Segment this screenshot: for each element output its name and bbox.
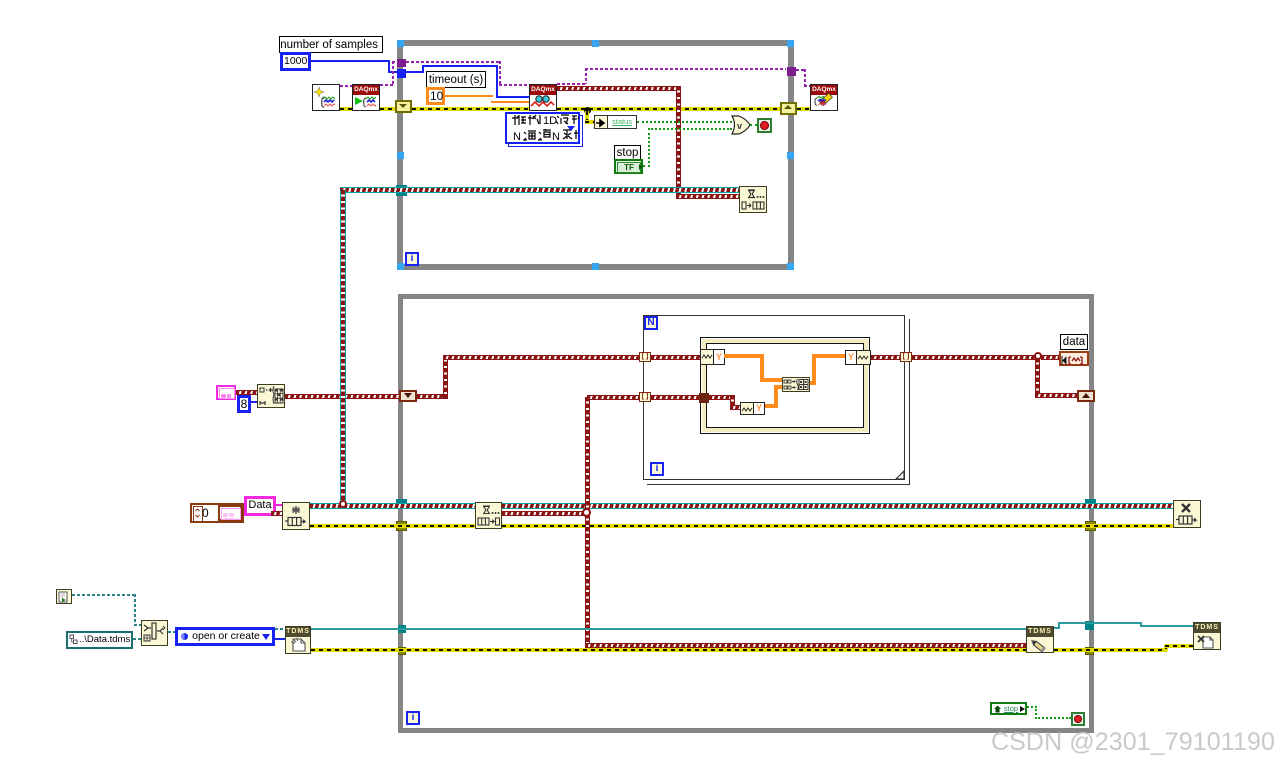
enum constant "open or create" <box>175 627 275 646</box>
wire: path current VI -> build path (teal dashed) <box>72 594 136 596</box>
selection handle bottom-right <box>787 263 794 270</box>
local variable stop <box>990 702 1027 715</box>
wire: tdms refnum open->write (teal) <box>311 628 1026 630</box>
IPE left border tunnel (solid square) <box>699 393 709 403</box>
auto-index tunnel T3 (right) <box>900 352 912 362</box>
wire: 8 -> init array (blue) <box>251 401 257 403</box>
while loop 2 (consumer) border <box>398 294 1094 733</box>
通 <box>523 131 536 140</box>
tunnel olive error (left) <box>396 521 407 531</box>
wire: error dequeue->release <box>502 524 1173 528</box>
道 <box>538 129 551 140</box>
tunnel olive error (right) <box>1085 521 1096 531</box>
wire: error write->close <box>1054 648 1167 652</box>
Obtain Queue VI <box>282 502 310 530</box>
svg-text:1D: 1D <box>543 115 557 127</box>
wire: i32 number of samples (blue) <box>310 60 390 62</box>
wire: timeout DBL (orange) <box>445 95 493 97</box>
tunnel blue (number of samples) <box>397 69 406 78</box>
模 <box>512 115 526 125</box>
path constant ..\Data.tdms <box>66 631 133 649</box>
tunnel teal (queue refnum into loop) <box>396 185 407 196</box>
iteration terminal i (loop2) <box>406 711 420 725</box>
selection handle top-left <box>397 40 404 47</box>
polymorphic selector label (Analog 1D Wfm NChan NSamp, Chinese) <box>508 115 583 147</box>
tunnel teal tdms (left) <box>398 625 406 633</box>
wire: queue refnum vertical branch up to top loop <box>340 190 346 502</box>
selection handle top-mid <box>592 40 599 47</box>
wire: bundled waveform -> T3 <box>871 355 900 360</box>
selection handle bottom-mid <box>592 263 599 270</box>
Interleave 1D Arrays function <box>782 377 810 392</box>
numeric constant 10 <box>426 87 445 105</box>
get waveform Y node (inner) <box>740 402 754 415</box>
wire: task refnum tunnel->Clear (purple) <box>796 69 806 71</box>
wire: element vertical x587 (maroon) <box>585 397 590 647</box>
wire: element down -> TDMS write (maroon) <box>585 643 1026 648</box>
shift register left (waveform array) brown <box>399 390 417 402</box>
TDMS Close VI <box>1193 622 1221 650</box>
DAQmx Create Virtual Channel VI <box>312 84 340 111</box>
IPE border node: bundle waveform (right) <box>845 350 857 365</box>
selection handle bottom-left <box>397 263 404 270</box>
wire: task refnum create->start (purple) <box>340 85 352 87</box>
label "stop" <box>614 145 641 160</box>
selection handle right-mid <box>787 152 794 159</box>
wire: wfm into T1 from init array (maroon striped) <box>285 394 399 399</box>
count terminal N <box>644 316 658 330</box>
wire: error cluster create->start (yellow/black) <box>340 107 352 111</box>
wire: boolean status -> OR (green dotted) <box>637 121 732 123</box>
boolean control terminal stop (TF) <box>614 159 643 174</box>
string constant "Data" <box>244 496 276 516</box>
conditional terminal (loop1) <box>757 118 772 133</box>
label "data" <box>1060 334 1088 350</box>
for loop dog-ear corner <box>893 468 911 486</box>
watermark <box>991 728 1277 758</box>
TDMS Open VI <box>285 626 311 654</box>
wire: string Data -> obtain queue (pink) <box>276 504 282 506</box>
error junction dot <box>584 107 591 114</box>
wire: boolean stop -> OR <box>643 165 650 167</box>
numeric constant 8 <box>237 395 251 413</box>
iteration terminal i (loop1) <box>405 252 419 266</box>
wire: T2 -> IPE tunnel -> get wfm node <box>651 395 699 400</box>
array of waveform constant <box>190 503 244 523</box>
tunnel purple (task in) <box>397 59 406 67</box>
wire: error Read->right SR <box>557 107 780 111</box>
wire: OR output -> conditional terminal <box>750 124 757 126</box>
wire: element type -> obtain queue (maroon) <box>271 511 282 516</box>
wire: waveform array Read->down (maroon striped) <box>557 86 681 91</box>
tunnel teal tdms (right) <box>1085 621 1094 630</box>
for loop frame main <box>643 315 905 480</box>
wire: task refnum start->loop (purple) <box>380 84 393 86</box>
wire: orange interleave out -> bundle Y <box>810 381 816 385</box>
tunnel olive error tdms (right) <box>1085 647 1094 655</box>
for loop frame (stacked) outer offset lines <box>647 319 910 485</box>
DAQmx Clear Task VI <box>810 84 838 111</box>
indicator terminal data (waveform array) <box>1059 351 1089 366</box>
wire: built path -> tdms open (teal dashed, behind enum) <box>168 631 175 633</box>
wire: error obtain->dequeue <box>310 524 475 528</box>
wire: path const -> build path <box>133 638 141 640</box>
shift register right (error) olive <box>780 102 797 115</box>
iteration terminal i (for loop) <box>650 462 664 476</box>
tunnel teal queue (left) <box>396 499 407 509</box>
shift register right (waveform array) brown <box>1077 390 1095 402</box>
svg-text:N: N <box>513 131 521 143</box>
wire: error SR->Read <box>412 107 529 111</box>
Release Queue VI <box>1173 500 1201 528</box>
selection handle top-right <box>787 40 794 47</box>
junction dot dequeue element <box>582 508 591 517</box>
shift register left (error) olive <box>395 100 412 113</box>
junction dot on waveform wire <box>1034 352 1042 360</box>
wire: error right SR->Clear <box>797 107 810 111</box>
TDMS Write VI <box>1026 626 1054 653</box>
wire: T3 -> data indicator / junction <box>912 355 1036 360</box>
svg-text:N: N <box>552 131 560 143</box>
in-place element structure border <box>700 337 870 434</box>
unbundle by name "status" <box>594 115 608 129</box>
wire: junction -> T2 <box>587 395 639 400</box>
Initialize Array function <box>257 384 285 408</box>
拟 <box>528 115 540 125</box>
tunnel purple (task out) right <box>787 67 796 76</box>
wire: error open->write (yellow) <box>311 648 1026 652</box>
wire: error branch to unbundle <box>585 111 589 122</box>
svg-text:v: v <box>737 121 742 131</box>
numeric control 1000 <box>280 52 311 71</box>
wire: orange Y array (unbundle -> interleave in1) <box>724 354 764 358</box>
auto-index tunnel T2 (left lower) <box>639 392 651 402</box>
wire: queue refnum into top loop (teal/maroon) <box>340 187 739 193</box>
conditional terminal (loop2) <box>1071 712 1085 726</box>
selection handle left-mid <box>397 152 404 159</box>
wire: wfm constant -> init array (maroon dashed) <box>236 390 257 395</box>
wire: queue refnum dequeue->release <box>502 503 1173 509</box>
wire: queue refnum obtain->dequeue (teal/maroon band) <box>310 503 475 509</box>
label "number of samples" <box>279 36 383 53</box>
wire: junction down to right shift register <box>1035 358 1040 398</box>
wire: error start->shift register <box>380 107 395 111</box>
while loop 1 (producer) border <box>397 40 794 270</box>
样 <box>574 130 587 139</box>
blue down arrow of selector <box>567 126 575 131</box>
波 <box>556 115 569 124</box>
wire: enum -> tdms open (blue) <box>275 638 285 640</box>
wire: orange Y array (get wfm -> interleave in2) <box>765 404 777 408</box>
wire: task refnum Read->tunnel (purple) <box>557 83 587 85</box>
auto-index tunnel T1 (left upper) <box>639 352 651 362</box>
label "timeout (s)" <box>426 71 486 88</box>
Dequeue Element VI <box>475 502 502 529</box>
queue wire junction dot <box>339 500 347 508</box>
OR gate <box>729 114 755 136</box>
DAQmx Read VI <box>529 84 557 111</box>
IPE border node: unbundle waveform (left) <box>700 349 714 365</box>
wire: local var -> conditional terminal (green dotted) <box>1027 706 1037 708</box>
waveform constant (pink) for init array <box>216 385 236 400</box>
形 <box>572 115 584 124</box>
wire: T1 -> unbundle node <box>651 355 700 360</box>
采 <box>563 130 572 139</box>
DAQmx Start Task VI <box>352 84 380 111</box>
tunnel olive error tdms (left) <box>398 647 406 655</box>
Enqueue Element VI <box>739 186 767 213</box>
Current VI's Path constant <box>56 589 72 604</box>
wire: tdms refnum write->close (teal) <box>1054 627 1060 629</box>
wire: dequeued element -> junction (maroon) <box>502 511 586 516</box>
tunnel teal queue (right) <box>1085 499 1096 509</box>
Build Path function <box>141 620 168 646</box>
wire: task refnum inside loop to DAQmx Read (purple) <box>406 61 501 63</box>
